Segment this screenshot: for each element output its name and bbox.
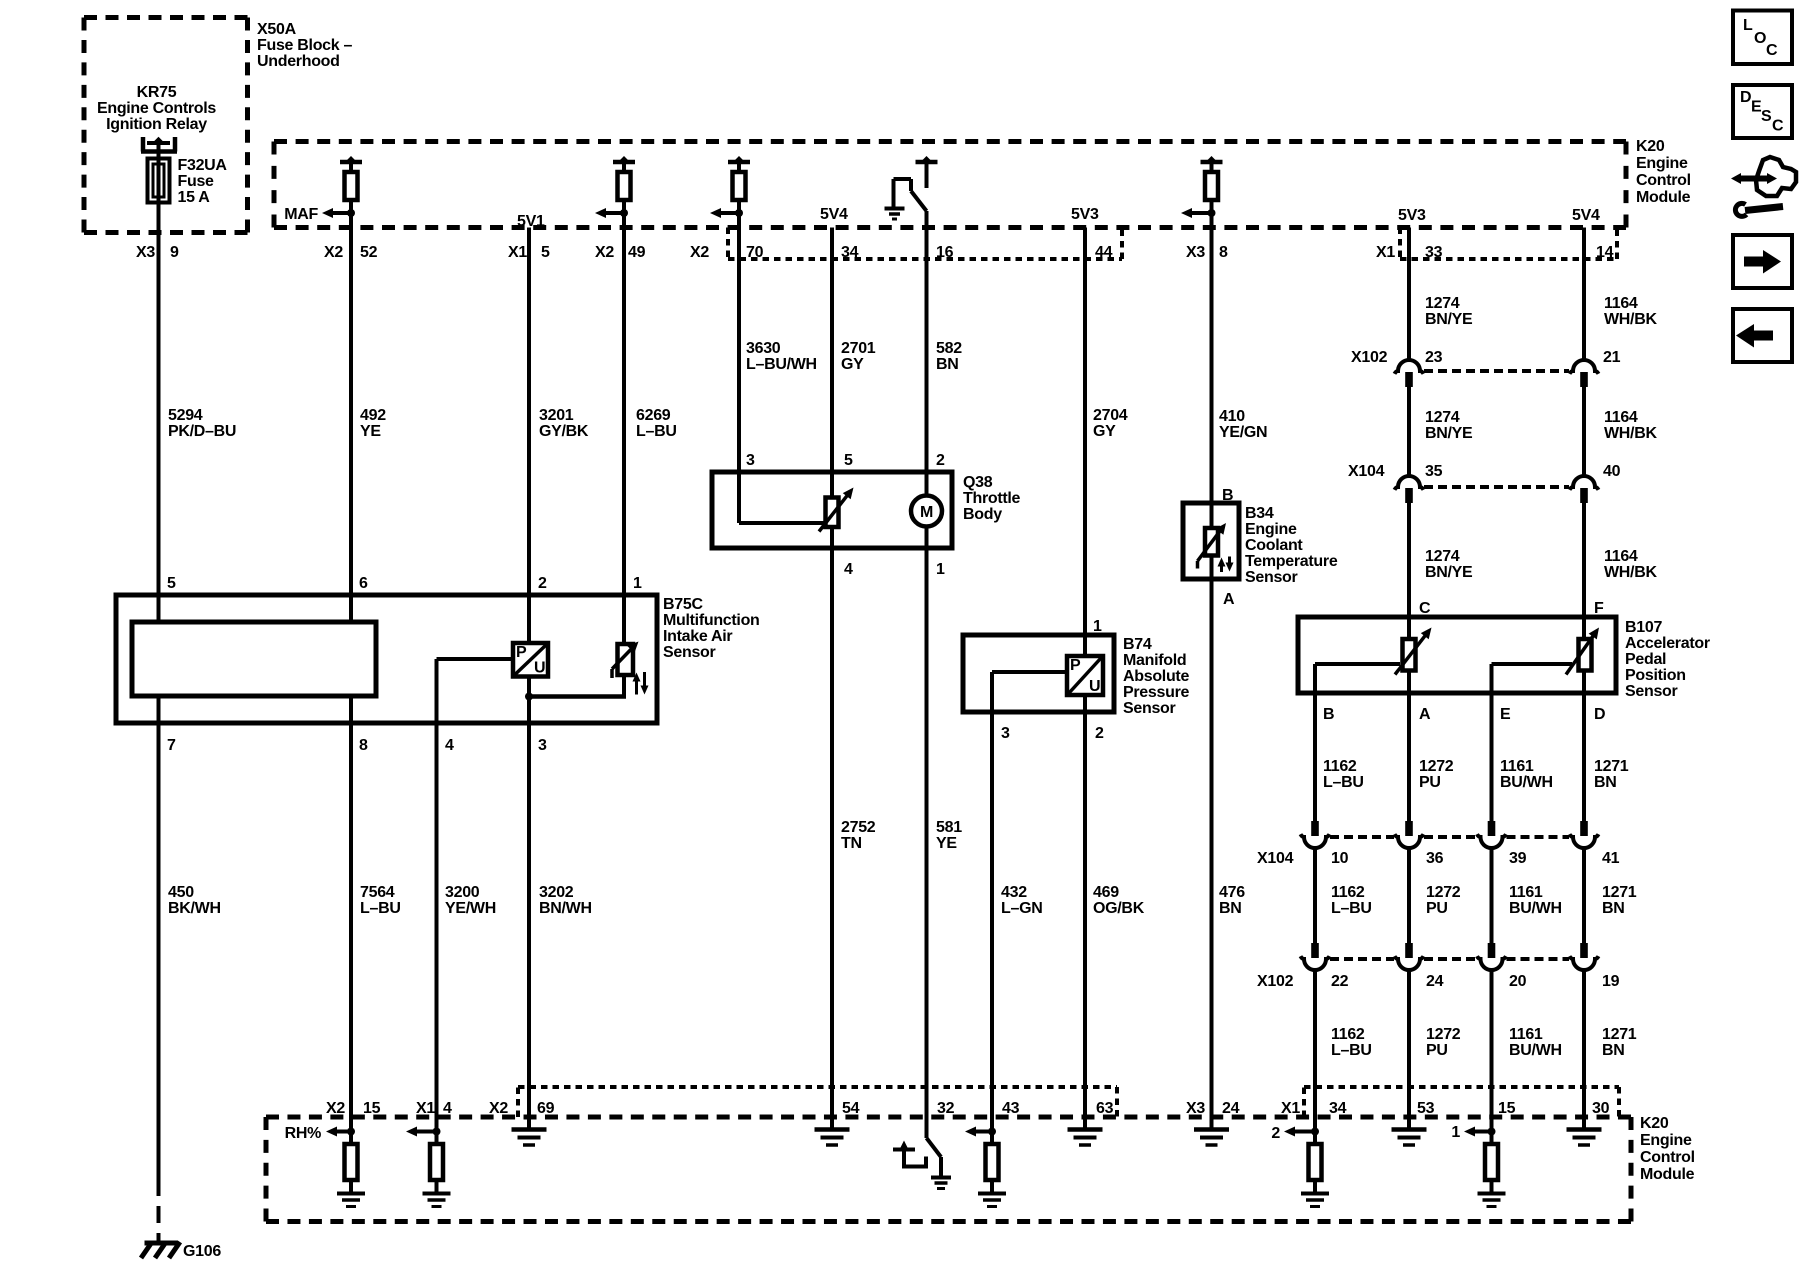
svg-text:L–BU: L–BU	[360, 900, 401, 917]
svg-text:YE/WH: YE/WH	[445, 900, 496, 917]
wire 3630 L-BU/WH (pin 70 to Q38 pin 3)	[737, 200, 741, 472]
connector X104 dashed ties (lower)	[1330, 835, 1394, 839]
svg-text:L–GN: L–GN	[1001, 900, 1042, 917]
svg-text:Fuse: Fuse	[178, 173, 215, 190]
wire B107 pin D to X104 (1271 BN)	[1582, 693, 1586, 821]
svg-text:L–BU: L–BU	[1331, 900, 1372, 917]
wire 1274 BN/YE segment 3 (X104 to B107 pin C)	[1407, 503, 1411, 639]
svg-text:C: C	[1766, 42, 1778, 59]
svg-text:1: 1	[633, 575, 642, 592]
svg-text:X1: X1	[416, 1100, 435, 1117]
svg-text:P: P	[516, 644, 527, 661]
svg-text:Accelerator: Accelerator	[1625, 635, 1710, 652]
svg-text:2704: 2704	[1093, 407, 1128, 424]
wire 492 YE (pin 52 to B75C pin 6)	[349, 200, 353, 622]
svg-text:16: 16	[936, 244, 954, 261]
svg-text:54: 54	[842, 1100, 860, 1117]
svg-text:469: 469	[1093, 884, 1119, 901]
wire B107 pin E to X104 (1161 BU/WH)	[1490, 664, 1494, 821]
svg-text:Engine: Engine	[1245, 521, 1297, 538]
svg-text:5V3: 5V3	[1071, 206, 1099, 223]
ECM input resistor to ground (pin 4)	[433, 1128, 441, 1136]
svg-text:B75C: B75C	[663, 596, 703, 613]
svg-text:1: 1	[1093, 618, 1102, 635]
connector X104 terminal 36	[1395, 834, 1424, 848]
svg-text:WH/BK: WH/BK	[1604, 311, 1657, 328]
svg-text:F32UA: F32UA	[178, 157, 228, 174]
svg-text:4: 4	[445, 737, 454, 754]
connector X102 terminal 24	[1395, 956, 1424, 970]
svg-text:BU/WH: BU/WH	[1500, 774, 1553, 791]
icon DESC box	[1733, 85, 1792, 138]
svg-text:5V4: 5V4	[1572, 207, 1600, 224]
svg-text:Pedal: Pedal	[1625, 651, 1666, 668]
svg-text:WH/BK: WH/BK	[1604, 425, 1657, 442]
svg-text:PU: PU	[1426, 900, 1448, 917]
svg-text:S: S	[1761, 108, 1772, 125]
svg-text:1272: 1272	[1426, 1026, 1461, 1043]
svg-text:BN: BN	[1594, 774, 1617, 791]
svg-text:Body: Body	[963, 506, 1002, 523]
svg-text:15 A: 15 A	[178, 189, 211, 206]
motor M Q38 throttle actuator	[911, 496, 942, 527]
B75C internal wire thermistor to junction	[622, 675, 626, 697]
B75C internal wire P/U bottom junction	[527, 677, 531, 1130]
svg-text:33: 33	[1425, 244, 1443, 261]
wire 1162 L&#8211;BU X102 to ECM	[1313, 970, 1317, 1144]
ECM K20 bottom dashed outline	[266, 1115, 1631, 1120]
wire B107 pin A to X104 (1272 PU)	[1407, 693, 1411, 821]
B74 pressure sensor P/U	[1067, 656, 1103, 695]
svg-text:L–BU: L–BU	[636, 423, 677, 440]
svg-text:X1: X1	[1281, 1100, 1300, 1117]
svg-text:39: 39	[1509, 850, 1527, 867]
svg-text:5: 5	[167, 575, 176, 592]
svg-text:Sensor: Sensor	[1123, 700, 1176, 717]
svg-text:69: 69	[537, 1100, 555, 1117]
svg-text:BN/YE: BN/YE	[1425, 311, 1473, 328]
svg-text:Engine: Engine	[1640, 1132, 1692, 1149]
B34 wire through box	[1210, 503, 1214, 528]
sensor B75C outer box	[116, 595, 657, 723]
svg-text:B107: B107	[1625, 619, 1662, 636]
svg-text:Intake Air: Intake Air	[663, 628, 732, 645]
svg-text:4: 4	[443, 1100, 452, 1117]
svg-text:C: C	[1772, 118, 1784, 135]
svg-text:3201: 3201	[539, 407, 574, 424]
ECM ground (pin 30)	[1567, 1127, 1602, 1132]
svg-text:K20: K20	[1640, 1115, 1669, 1132]
connector X102 terminal 21	[1570, 360, 1599, 374]
svg-text:F: F	[1594, 600, 1604, 617]
svg-text:Control: Control	[1636, 172, 1691, 189]
svg-text:BU/WH: BU/WH	[1509, 900, 1562, 917]
svg-text:7: 7	[167, 737, 176, 754]
svg-text:43: 43	[1002, 1100, 1020, 1117]
connector X102 dashed tie	[1424, 369, 1569, 373]
svg-text:8: 8	[1219, 244, 1228, 261]
icon forward arrow box	[1733, 235, 1792, 288]
ECM pull-up resistor (pin X2-70)	[728, 160, 750, 165]
svg-text:1272: 1272	[1419, 758, 1454, 775]
Q38 motor wire to pin 1	[925, 527, 929, 1139]
wire 1161 BU/WH X102 to ECM	[1490, 970, 1494, 1144]
svg-text:B: B	[1323, 706, 1334, 723]
svg-text:581: 581	[936, 819, 962, 836]
fuse F32UA symbol	[148, 159, 170, 203]
wire B107 pin B to X104 (1162 L-BU)	[1313, 664, 1317, 821]
ECM pull-up resistor for MAF (pin X2-52)	[340, 160, 362, 165]
svg-text:10: 10	[1331, 850, 1349, 867]
svg-text:X3: X3	[1186, 1100, 1205, 1117]
ECM ground (pin 69)	[512, 1127, 547, 1132]
svg-text:52: 52	[360, 244, 378, 261]
svg-text:34: 34	[1329, 1100, 1347, 1117]
svg-text:E: E	[1500, 706, 1511, 723]
svg-text:Sensor: Sensor	[663, 644, 716, 661]
svg-text:1164: 1164	[1604, 295, 1638, 312]
svg-text:5: 5	[541, 244, 550, 261]
wire 1272 PU X104 to X102	[1407, 848, 1411, 943]
svg-text:1274: 1274	[1425, 548, 1460, 565]
B74 wire pin 2 down (469)	[1083, 695, 1087, 1130]
svg-text:Manifold: Manifold	[1123, 652, 1186, 669]
svg-text:Multifunction: Multifunction	[663, 612, 760, 629]
svg-text:41: 41	[1602, 850, 1620, 867]
svg-text:Throttle: Throttle	[963, 490, 1021, 507]
svg-text:U: U	[534, 660, 545, 677]
svg-text:3200: 3200	[445, 884, 480, 901]
svg-text:Control: Control	[1640, 1149, 1695, 1166]
wire 1164 WH/BK segment 1 (pin 14 to X102)	[1582, 228, 1586, 361]
ECM input resistor to ground (pin 15) with RH% arrow	[347, 1128, 355, 1136]
connector X104 terminal 41	[1570, 834, 1599, 848]
wire 1274 BN/YE segment 2 (X102 to X104)	[1407, 387, 1411, 476]
svg-text:22: 22	[1331, 973, 1349, 990]
wire 1161 BU/WH X104 to X102	[1490, 848, 1494, 943]
wire 2704 GY (pin 44 to B74 pin 1)	[1083, 228, 1087, 657]
svg-text:15: 15	[1498, 1100, 1516, 1117]
svg-text:1162: 1162	[1331, 1026, 1365, 1043]
svg-text:BN/WH: BN/WH	[539, 900, 592, 917]
svg-text:YE: YE	[360, 423, 381, 440]
connector X102 terminal 23	[1395, 360, 1424, 374]
icon LOC box	[1733, 11, 1792, 65]
connector X104 terminal 39	[1477, 834, 1506, 848]
svg-text:1164: 1164	[1604, 548, 1638, 565]
wire 582 BN (pin 16 to Q38 pin 2)	[925, 211, 929, 496]
svg-text:L: L	[1743, 17, 1753, 34]
svg-text:9: 9	[170, 244, 179, 261]
wire 2701 GY (5V4 to Q38 pin 5)	[830, 228, 834, 498]
svg-text:24: 24	[1426, 973, 1444, 990]
svg-text:OG/BK: OG/BK	[1093, 900, 1145, 917]
ECM low-side switch to ground (pin 16)	[916, 160, 938, 165]
svg-text:Module: Module	[1636, 189, 1691, 206]
ECM pull-up resistor (pin X2-49)	[613, 160, 635, 165]
svg-text:35: 35	[1425, 463, 1443, 480]
svg-text:YE: YE	[936, 835, 957, 852]
svg-text:6: 6	[359, 575, 368, 592]
svg-text:Pressure: Pressure	[1123, 684, 1189, 701]
svg-text:49: 49	[628, 244, 646, 261]
ECM input resistor to ground (pin 43)	[988, 1128, 996, 1136]
svg-text:Module: Module	[1640, 1166, 1695, 1183]
svg-text:Absolute: Absolute	[1123, 668, 1189, 685]
svg-text:PK/D–BU: PK/D–BU	[168, 423, 236, 440]
svg-text:3: 3	[538, 737, 547, 754]
svg-text:D: D	[1740, 89, 1751, 106]
connector X104 dashed tie	[1424, 485, 1569, 489]
svg-text:X50A: X50A	[257, 21, 297, 38]
wire 410 YE/GN (pin 8 to B34 pin B)	[1210, 200, 1214, 528]
ECM X2 connector dotted bracket (top middle)	[726, 228, 730, 260]
B74 internal wire P/U to pin 3	[992, 670, 1067, 674]
svg-text:5V4: 5V4	[820, 206, 848, 223]
wire 1272 PU X102 to ECM	[1407, 970, 1411, 1130]
svg-text:BN/YE: BN/YE	[1425, 425, 1473, 442]
svg-text:2: 2	[1095, 725, 1104, 742]
svg-text:G106: G106	[183, 1243, 221, 1260]
svg-text:4: 4	[844, 561, 853, 578]
svg-text:Sensor: Sensor	[1625, 683, 1678, 700]
svg-text:3202: 3202	[539, 884, 574, 901]
B75C internal wire P/U to pin 4	[437, 657, 514, 661]
svg-text:7564: 7564	[360, 884, 395, 901]
svg-text:410: 410	[1219, 408, 1245, 425]
svg-text:6269: 6269	[636, 407, 671, 424]
ECM input resistor to ground (pin 15 right) with arrow 1	[1488, 1128, 1496, 1136]
B75C thermistor temperature arrows	[635, 680, 638, 695]
ground G106 chassis symbol	[145, 1241, 179, 1246]
svg-text:1161: 1161	[1500, 758, 1534, 775]
connector X102 terminal 19	[1570, 956, 1599, 970]
svg-text:5294: 5294	[168, 407, 203, 424]
svg-text:432: 432	[1001, 884, 1027, 901]
svg-text:1161: 1161	[1509, 884, 1543, 901]
svg-text:K20: K20	[1636, 138, 1665, 155]
dashed wire to ground G106	[157, 1179, 161, 1243]
svg-text:1162: 1162	[1331, 884, 1365, 901]
ECM X2 connector dotted bracket (bottom)	[516, 1087, 520, 1117]
wire 1162 L&#8211;BU X104 to X102	[1313, 848, 1317, 943]
svg-text:1162: 1162	[1323, 758, 1357, 775]
svg-text:X104: X104	[1257, 850, 1294, 867]
connector X104 terminal 40	[1570, 476, 1599, 490]
ECM motor driver switch to ground (pin 32)	[927, 1138, 942, 1157]
svg-text:44: 44	[1095, 244, 1113, 261]
svg-text:X3: X3	[136, 244, 155, 261]
svg-text:3: 3	[1001, 725, 1010, 742]
svg-text:P: P	[1070, 657, 1081, 674]
svg-text:X102: X102	[1351, 349, 1388, 366]
svg-text:L–BU/WH: L–BU/WH	[746, 356, 817, 373]
svg-text:3630: 3630	[746, 340, 781, 357]
icon wrench	[1735, 203, 1746, 216]
connector X102 terminal 22	[1301, 956, 1330, 970]
ECM ground (pin 54)	[815, 1127, 850, 1132]
svg-text:BU/WH: BU/WH	[1509, 1042, 1562, 1059]
svg-text:RH%: RH%	[285, 1125, 322, 1142]
svg-text:X1: X1	[1376, 244, 1395, 261]
ECM ground (pin 63)	[1068, 1127, 1103, 1132]
Q38 throttle position potentiometer	[737, 472, 741, 523]
svg-text:B34: B34	[1245, 505, 1274, 522]
wire 450 BK/WH (B75C pin 7 down)	[157, 696, 161, 1179]
B75C heater element box	[132, 622, 376, 696]
svg-text:L–BU: L–BU	[1323, 774, 1364, 791]
svg-text:KR75: KR75	[137, 84, 177, 101]
svg-text:1274: 1274	[1425, 409, 1460, 426]
B107 potentiometer 2 (F-D)	[1579, 639, 1592, 671]
svg-text:1271: 1271	[1602, 884, 1637, 901]
actuator Q38 box	[712, 472, 952, 548]
svg-text:WH/BK: WH/BK	[1604, 564, 1657, 581]
svg-text:TN: TN	[841, 835, 862, 852]
sensor B34 box	[1183, 503, 1239, 579]
wire 3201 GY/BK (5V1 to B75C pin 2)	[527, 228, 531, 644]
fuse block X50A dashed outline	[84, 15, 248, 20]
wire 1271 BN X102 to ECM	[1582, 970, 1586, 1130]
svg-text:PU: PU	[1419, 774, 1441, 791]
svg-text:2: 2	[1271, 1125, 1280, 1142]
svg-text:B: B	[1222, 487, 1233, 504]
svg-text:36: 36	[1426, 850, 1444, 867]
svg-text:Engine: Engine	[1636, 155, 1688, 172]
connector X104 terminal 10	[1301, 834, 1330, 848]
svg-text:M: M	[920, 504, 933, 521]
ECM X1 connector dotted bracket (top right)	[1398, 228, 1402, 260]
svg-text:BN: BN	[1602, 1042, 1625, 1059]
svg-text:Ignition Relay: Ignition Relay	[106, 116, 207, 133]
svg-text:19: 19	[1602, 973, 1620, 990]
connector X102 terminal 20	[1477, 956, 1506, 970]
connector X102 dashed ties (lower)	[1330, 957, 1394, 961]
svg-text:X102: X102	[1257, 973, 1294, 990]
svg-text:Sensor: Sensor	[1245, 569, 1298, 586]
svg-text:Temperature: Temperature	[1245, 553, 1338, 570]
svg-text:X2: X2	[324, 244, 343, 261]
svg-text:5: 5	[844, 452, 853, 469]
svg-text:BN: BN	[1602, 900, 1625, 917]
svg-text:2752: 2752	[841, 819, 876, 836]
svg-text:5V1: 5V1	[517, 213, 545, 230]
B75C pressure sensor P/U	[513, 643, 548, 677]
svg-text:24: 24	[1222, 1100, 1240, 1117]
sensor B74 box	[963, 635, 1114, 712]
svg-text:X2: X2	[595, 244, 614, 261]
svg-text:D: D	[1594, 706, 1605, 723]
ECM X1 connector dotted bracket (bottom right)	[1302, 1087, 1306, 1117]
svg-text:X2: X2	[489, 1100, 508, 1117]
svg-text:X2: X2	[690, 244, 709, 261]
svg-text:YE/GN: YE/GN	[1219, 424, 1267, 441]
svg-text:Position: Position	[1625, 667, 1686, 684]
svg-text:3: 3	[746, 452, 755, 469]
svg-text:A: A	[1223, 591, 1235, 608]
wire 476 BN (B34 pin A to ECM pin 24)	[1210, 556, 1214, 1130]
svg-text:20: 20	[1509, 973, 1527, 990]
svg-text:2: 2	[936, 452, 945, 469]
svg-text:34: 34	[841, 244, 859, 261]
B107 potentiometer 1 (C-A)	[1403, 639, 1416, 671]
svg-text:15: 15	[363, 1100, 381, 1117]
svg-text:8: 8	[359, 737, 368, 754]
wire from relay through fuse down (5294)	[157, 143, 161, 622]
wire 1164 WH/BK segment 2 (X102 to X104)	[1582, 387, 1586, 476]
icon back arrow box	[1733, 309, 1792, 362]
B34 thermistor	[1205, 528, 1218, 556]
svg-text:Engine Controls: Engine Controls	[97, 100, 216, 117]
svg-text:C: C	[1419, 600, 1431, 617]
icon vehicle outline	[1756, 157, 1796, 196]
svg-text:1271: 1271	[1594, 758, 1629, 775]
svg-text:GY/BK: GY/BK	[539, 423, 589, 440]
svg-text:Underhood: Underhood	[257, 53, 340, 70]
wire 7564 L-BU (B75C pin 8 to ECM pin 15)	[349, 696, 353, 1144]
wire 1271 BN X104 to X102	[1582, 848, 1586, 943]
svg-text:X1: X1	[508, 244, 527, 261]
svg-text:1: 1	[936, 561, 945, 578]
ECM pull-up resistor (pin X3-8)	[1201, 160, 1223, 165]
B34 thermistor temperature arrows	[1220, 565, 1223, 573]
svg-text:5V3: 5V3	[1398, 207, 1426, 224]
wire 1274 BN/YE segment 1 (pin 33 to X102)	[1407, 228, 1411, 361]
ECM ground (pin 24)	[1194, 1127, 1229, 1132]
ECM ground (pin 53)	[1392, 1127, 1427, 1132]
svg-text:476: 476	[1219, 884, 1245, 901]
B75C thermistor	[618, 644, 634, 675]
Q38 potentiometer wire to pin 4	[830, 527, 834, 1130]
connector X104 terminal 35	[1395, 476, 1424, 490]
wire 6269 L-BU (pin 49 to B75C pin 1)	[622, 200, 626, 644]
ECM K20 top dashed outline	[274, 139, 1626, 144]
svg-text:2701: 2701	[841, 340, 876, 357]
svg-text:PU: PU	[1426, 1042, 1448, 1059]
svg-text:30: 30	[1592, 1100, 1610, 1117]
svg-text:GY: GY	[1093, 423, 1116, 440]
svg-text:BN: BN	[1219, 900, 1242, 917]
svg-text:U: U	[1089, 678, 1100, 695]
svg-text:1271: 1271	[1602, 1026, 1637, 1043]
svg-text:2: 2	[538, 575, 547, 592]
svg-text:450: 450	[168, 884, 194, 901]
svg-text:492: 492	[360, 407, 386, 424]
svg-text:BN: BN	[936, 356, 959, 373]
svg-text:BN/YE: BN/YE	[1425, 564, 1473, 581]
B107 pin D wire inside	[1582, 671, 1586, 694]
svg-text:X2: X2	[326, 1100, 345, 1117]
svg-text:1: 1	[1451, 1124, 1460, 1141]
icon vehicle double-arrow	[1731, 173, 1741, 184]
svg-text:Fuse Block –: Fuse Block –	[257, 37, 353, 54]
svg-text:582: 582	[936, 340, 962, 357]
ECM input resistor to ground (pin 34) with arrow 2	[1311, 1128, 1319, 1136]
wire 1164 WH/BK segment 3 (X104 to B107 pin F)	[1582, 503, 1586, 639]
svg-text:14: 14	[1596, 244, 1614, 261]
svg-text:GY: GY	[841, 356, 864, 373]
sensor B107 box	[1298, 617, 1616, 693]
svg-text:70: 70	[746, 244, 764, 261]
svg-text:A: A	[1419, 706, 1431, 723]
svg-text:O: O	[1754, 30, 1766, 47]
svg-text:63: 63	[1096, 1100, 1114, 1117]
svg-text:1274: 1274	[1425, 295, 1460, 312]
svg-text:1161: 1161	[1509, 1026, 1543, 1043]
svg-text:L–BU: L–BU	[1331, 1042, 1372, 1059]
svg-text:Q38: Q38	[963, 474, 993, 491]
svg-text:B74: B74	[1123, 636, 1152, 653]
